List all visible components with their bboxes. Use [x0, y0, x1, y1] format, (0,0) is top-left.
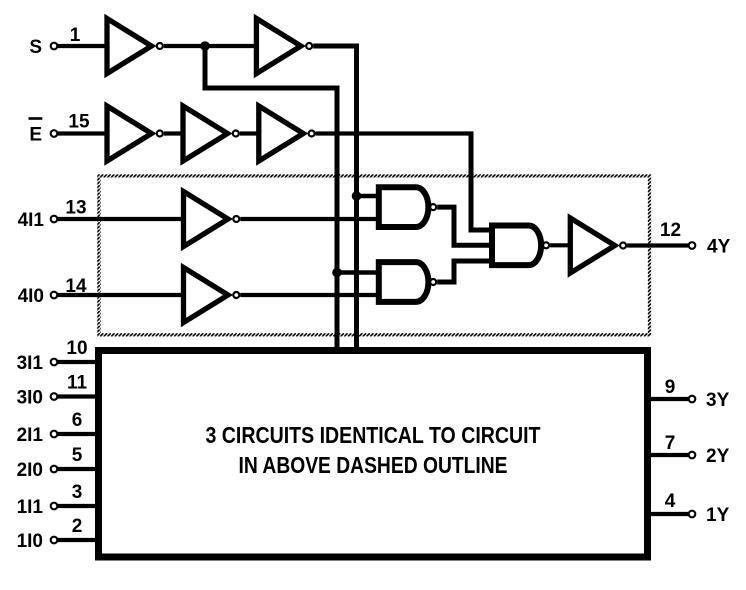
- inverter U11: [570, 218, 626, 273]
- terminal 3I1: [51, 359, 58, 366]
- terminal 2I0: [51, 466, 58, 473]
- svg-text:1I1: 1I1: [17, 497, 44, 518]
- svg-text:E: E: [29, 125, 42, 146]
- svg-text:1: 1: [70, 25, 81, 46]
- wire U6 out to NAND U7: [240, 217, 380, 221]
- terminal E: [51, 130, 58, 137]
- wire U1 out: [164, 44, 257, 48]
- wire 4I1 input: [58, 217, 186, 221]
- wire 2I0 input: [58, 467, 100, 471]
- svg-text:2: 2: [72, 516, 83, 537]
- svg-text:4I0: 4I0: [18, 286, 44, 307]
- wire 3I1 input: [58, 360, 100, 364]
- wire U11 out to 4Y: [627, 243, 688, 247]
- svg-text:4Y: 4Y: [707, 237, 731, 258]
- svg-text:1I0: 1I0: [17, 531, 43, 552]
- input label E with overline: [29, 117, 43, 145]
- svg-text:4: 4: [665, 491, 676, 512]
- svg-text:7: 7: [665, 433, 676, 454]
- wire U3 out: [164, 131, 185, 135]
- wire 2I1 input: [58, 432, 100, 436]
- wire SBAR route (junction down and across, down to lower block): [205, 46, 337, 350]
- wire 1Y output: [648, 512, 688, 516]
- NAND U7: [379, 187, 436, 227]
- svg-text:IN ABOVE DASHED OUTLINE: IN ABOVE DASHED OUTLINE: [239, 452, 508, 478]
- wire 4I0 input: [58, 293, 186, 297]
- junction on S line: [352, 191, 362, 201]
- terminal 4I1: [51, 216, 58, 223]
- dashed outline box: [99, 176, 650, 335]
- wire 2Y output: [648, 453, 688, 457]
- wire 1I1 input: [58, 504, 100, 508]
- terminal S: [51, 43, 58, 50]
- wire S input: [58, 44, 110, 48]
- svg-text:11: 11: [67, 373, 88, 394]
- NAND U10 (3-input): [492, 225, 549, 265]
- terminal 1I1: [51, 503, 58, 510]
- inverter U6: [184, 192, 240, 247]
- svg-text:13: 13: [65, 198, 86, 219]
- wire S line (U2 out, down to lower block): [313, 46, 356, 350]
- inverter U5: [259, 106, 315, 161]
- inverter U3: [107, 106, 163, 161]
- terminal 3Y: [689, 396, 696, 403]
- svg-text:2Y: 2Y: [706, 446, 730, 467]
- svg-text:15: 15: [68, 112, 90, 133]
- wire E line (U5 out, right then down to NAND U10 top input): [316, 131, 474, 135]
- wire U4 out: [240, 131, 261, 135]
- NAND U9: [379, 262, 436, 302]
- inverter U1: [107, 19, 163, 74]
- junction node SBAR: [200, 41, 210, 51]
- svg-text:5: 5: [72, 445, 83, 466]
- terminal 2I1: [51, 431, 58, 438]
- svg-text:S: S: [29, 37, 42, 58]
- wire U7 out to U10 middle input: [437, 207, 493, 245]
- svg-text:3I1: 3I1: [17, 353, 44, 374]
- wire 3I0 input: [58, 394, 100, 398]
- svg-text:2I1: 2I1: [17, 425, 44, 446]
- inverter U8: [184, 268, 240, 323]
- svg-text:9: 9: [665, 377, 676, 398]
- terminal 2Y: [689, 452, 696, 459]
- svg-text:3I0: 3I0: [17, 388, 43, 409]
- wire U9 out to U10 bottom input: [437, 261, 493, 282]
- terminal 1I0: [51, 537, 58, 544]
- wire U8 out to NAND U9: [240, 293, 380, 297]
- wire SBAR tap to NAND U9 top input: [337, 270, 380, 275]
- svg-text:3: 3: [72, 482, 83, 503]
- inverter U4: [183, 106, 239, 161]
- terminal 4Y: [689, 242, 696, 249]
- wire E input: [58, 131, 110, 135]
- wire 1I0 input: [58, 538, 100, 542]
- svg-text:10: 10: [66, 338, 87, 359]
- terminal 4I0: [51, 292, 58, 299]
- svg-text:4I1: 4I1: [18, 210, 45, 231]
- wire U10 out: [550, 243, 572, 247]
- svg-text:2I0: 2I0: [17, 460, 43, 481]
- inverter U2: [256, 19, 312, 74]
- svg-text:12: 12: [660, 220, 681, 241]
- terminal 3I0: [51, 393, 58, 400]
- svg-text:6: 6: [72, 410, 83, 431]
- block: 3 circuits identical: [99, 351, 648, 558]
- junction on SBAR line: [332, 268, 342, 278]
- svg-text:3Y: 3Y: [706, 390, 730, 411]
- svg-text:1Y: 1Y: [706, 505, 730, 526]
- svg-text:3 CIRCUITS IDENTICAL TO CIRCUI: 3 CIRCUITS IDENTICAL TO CIRCUIT: [206, 422, 541, 448]
- wire S tap to NAND U7 top input: [357, 194, 381, 199]
- terminal 1Y: [689, 511, 696, 518]
- wire 3Y output: [648, 397, 688, 401]
